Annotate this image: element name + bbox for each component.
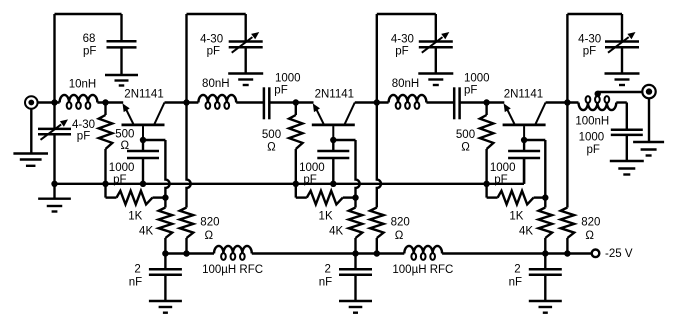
svg-text:4K: 4K <box>329 225 343 237</box>
svg-text:pF: pF <box>77 131 90 143</box>
svg-text:500: 500 <box>262 129 281 141</box>
svg-text:1000: 1000 <box>464 72 490 84</box>
svg-text:1K: 1K <box>319 211 333 223</box>
svg-text:500: 500 <box>115 129 134 141</box>
svg-text:pF: pF <box>207 46 220 58</box>
svg-text:2: 2 <box>134 264 140 276</box>
svg-text:1000: 1000 <box>579 132 605 144</box>
svg-text:nF: nF <box>319 276 332 288</box>
svg-text:820: 820 <box>200 216 219 228</box>
svg-text:pF: pF <box>83 45 96 57</box>
svg-text:nF: nF <box>129 276 142 288</box>
svg-text:4-30: 4-30 <box>200 34 223 46</box>
svg-text:4K: 4K <box>139 225 153 237</box>
svg-text:4-30: 4-30 <box>578 34 601 46</box>
svg-text:500: 500 <box>456 129 475 141</box>
svg-text:Ω: Ω <box>585 230 594 242</box>
svg-text:1K: 1K <box>509 211 523 223</box>
svg-text:100nH: 100nH <box>575 115 609 127</box>
svg-text:2: 2 <box>514 264 520 276</box>
svg-text:-25 V: -25 V <box>605 248 633 260</box>
svg-text:80nH: 80nH <box>202 78 230 90</box>
svg-text:4-30: 4-30 <box>391 34 414 46</box>
svg-text:2: 2 <box>324 264 330 276</box>
svg-text:2N1141: 2N1141 <box>315 88 354 100</box>
svg-text:80nH: 80nH <box>392 78 420 90</box>
svg-text:820: 820 <box>391 216 410 228</box>
svg-text:1000: 1000 <box>275 72 301 84</box>
svg-text:2N1141: 2N1141 <box>124 88 163 100</box>
svg-text:pF: pF <box>274 85 287 97</box>
svg-text:10nH: 10nH <box>69 79 97 91</box>
svg-text:pF: pF <box>113 174 126 186</box>
svg-text:Ω: Ω <box>461 142 470 154</box>
svg-text:100µH RFC: 100µH RFC <box>392 264 453 276</box>
svg-text:820: 820 <box>581 216 600 228</box>
svg-text:pF: pF <box>395 46 408 58</box>
svg-text:1K: 1K <box>128 211 142 223</box>
svg-text:1000: 1000 <box>109 162 135 174</box>
svg-text:1000: 1000 <box>299 162 325 174</box>
svg-text:Ω: Ω <box>204 230 213 242</box>
svg-text:Ω: Ω <box>267 142 276 154</box>
svg-text:100µH RFC: 100µH RFC <box>202 264 263 276</box>
svg-text:pF: pF <box>583 46 596 58</box>
svg-text:pF: pF <box>303 174 316 186</box>
svg-text:2N1141: 2N1141 <box>504 88 543 100</box>
svg-text:nF: nF <box>509 276 522 288</box>
svg-text:pF: pF <box>494 174 507 186</box>
svg-text:pF: pF <box>464 85 477 97</box>
svg-text:Ω: Ω <box>120 140 129 152</box>
svg-text:1000: 1000 <box>490 162 516 174</box>
svg-text:pF: pF <box>586 144 599 156</box>
svg-text:4K: 4K <box>519 225 533 237</box>
svg-text:68: 68 <box>83 33 96 45</box>
svg-text:Ω: Ω <box>395 230 404 242</box>
svg-text:4-30: 4-30 <box>72 119 95 131</box>
